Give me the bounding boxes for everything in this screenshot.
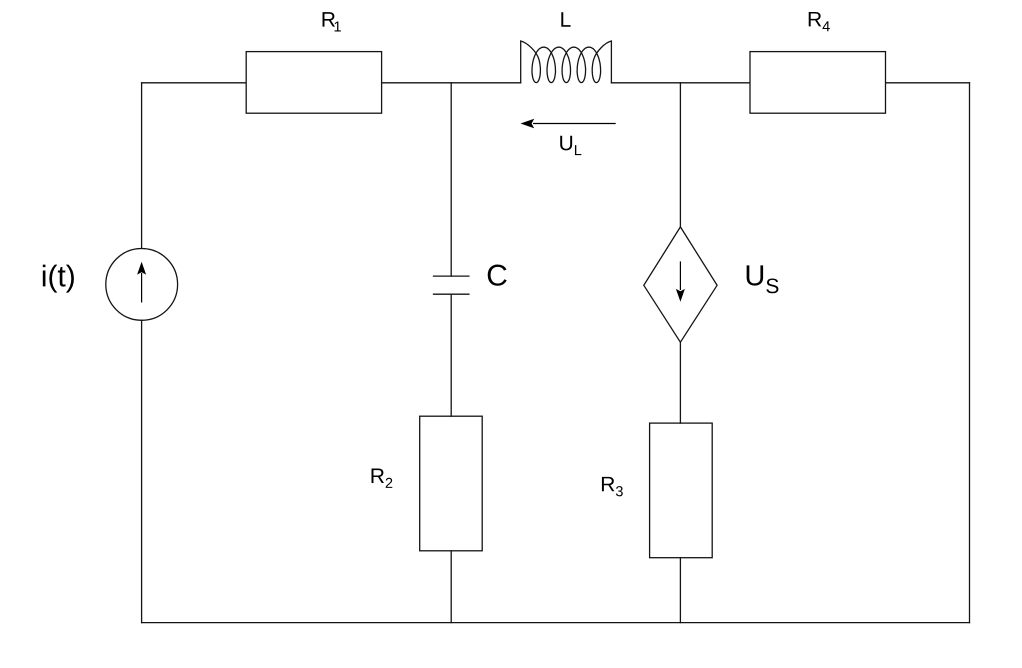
wire bottom [142, 622, 970, 624]
wire right side vertical [969, 83, 971, 623]
label R1 [323, 12, 341, 31]
wire left upper vertical [141, 83, 143, 249]
current source arrow [137, 262, 146, 303]
label R3 [602, 477, 623, 496]
resistor R2 box [420, 416, 483, 551]
resistor R3 box [650, 423, 713, 558]
label L [561, 12, 570, 26]
wire C to R2 [450, 294, 452, 416]
capacitor C bottom plate [434, 293, 469, 295]
label R2 [372, 469, 393, 488]
US diamond arrow [676, 261, 685, 301]
resistor R4 box [750, 52, 886, 114]
UL arrow [521, 119, 616, 129]
wire left lower vertical [141, 320, 143, 622]
label UL [560, 136, 581, 155]
current source i(t) circle [106, 249, 178, 321]
label US [747, 265, 779, 293]
resistor R1 box [246, 52, 381, 114]
inductor L coil [521, 41, 612, 83]
wire US to R3 [679, 342, 681, 423]
wire top-left: left corner to R1 [142, 82, 247, 84]
wire inductor to R4 (through node at US branch) [611, 82, 750, 84]
label i(t) [43, 265, 74, 293]
label C [488, 265, 507, 286]
wire R1 to inductor (through node at C branch) [382, 82, 521, 84]
wire R4 to top-right corner [886, 82, 970, 84]
capacitor C top plate [434, 275, 469, 277]
label R4 [809, 12, 830, 31]
wire R2 to bottom [450, 551, 452, 623]
wire US branch upper [679, 83, 681, 227]
wire R3 to bottom [679, 558, 681, 623]
wire C branch upper [450, 83, 452, 276]
source US diamond [644, 227, 717, 342]
